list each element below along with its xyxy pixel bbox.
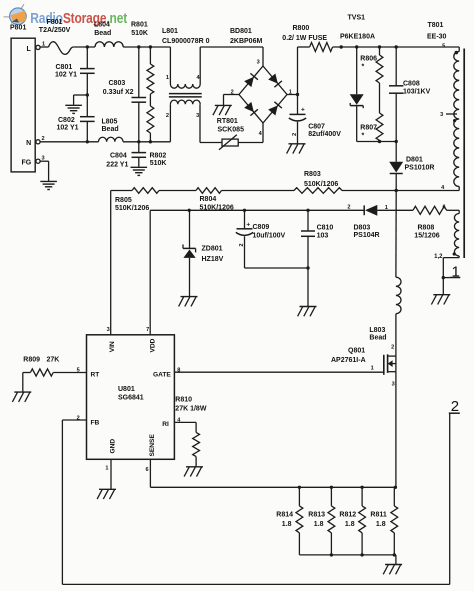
svg-text:Bead: Bead [102,126,119,133]
svg-text:C808: C808 [403,81,420,88]
svg-text:R809: R809 [23,357,40,364]
svg-text:R800: R800 [293,25,310,32]
svg-text:8: 8 [177,367,180,373]
svg-text:U801: U801 [118,386,135,393]
svg-text:2: 2 [391,344,394,350]
svg-text:+: + [301,106,305,113]
svg-text:6: 6 [145,467,148,473]
svg-text:1: 1 [105,465,108,471]
svg-text:15/1206: 15/1206 [414,232,439,239]
svg-text:R813: R813 [308,512,325,519]
svg-text:1: 1 [166,75,169,81]
svg-text:L801: L801 [162,28,178,35]
svg-text:BD801: BD801 [230,28,252,35]
svg-text:EE-30: EE-30 [427,33,447,40]
svg-text:RT: RT [91,371,100,378]
svg-text:7: 7 [146,327,149,333]
svg-text:CL9000078R 0: CL9000078R 0 [162,38,210,45]
svg-text:1: 1 [452,263,460,280]
svg-text:L: L [27,46,32,53]
svg-text:L803: L803 [369,327,385,334]
svg-text:82uf/400V: 82uf/400V [308,131,341,138]
svg-text:1,2: 1,2 [434,254,443,260]
svg-text:F801: F801 [47,19,63,26]
svg-text:C803: C803 [109,80,126,87]
svg-text:1.8: 1.8 [314,521,324,528]
svg-text:510K/1206: 510K/1206 [304,181,338,188]
svg-text:RI: RI [162,421,169,428]
svg-text:VIN: VIN [109,341,116,352]
svg-text:10uf/100V: 10uf/100V [253,233,286,240]
svg-text:R811: R811 [370,512,386,519]
svg-text:PS104R: PS104R [354,232,380,239]
svg-text:27K: 27K [47,357,60,364]
svg-text:SCK085: SCK085 [218,127,245,134]
svg-text:RT801: RT801 [217,118,238,125]
svg-text:2: 2 [451,398,459,415]
svg-text:D803: D803 [354,224,371,231]
svg-text:2: 2 [239,244,245,247]
svg-text:HZ18V: HZ18V [202,256,224,263]
svg-text:510K: 510K [131,30,148,37]
svg-text:1: 1 [385,205,388,211]
svg-text:222 Y1: 222 Y1 [106,161,128,168]
svg-text:SENSE: SENSE [149,434,156,457]
svg-text:R812: R812 [339,512,356,519]
svg-text:2: 2 [292,133,298,136]
svg-text:R804: R804 [200,196,217,203]
svg-text:TVS1: TVS1 [348,15,366,22]
svg-text:T801: T801 [428,22,444,29]
svg-text:102 Y1: 102 Y1 [57,125,79,132]
svg-text:1.8: 1.8 [376,521,386,528]
svg-text:27K 1/8W: 27K 1/8W [175,405,207,412]
svg-text:2KBP06M: 2KBP06M [230,38,262,45]
svg-text:2: 2 [347,204,350,210]
svg-text:2: 2 [231,89,234,95]
svg-text:FG: FG [21,160,31,167]
svg-text:103: 103 [317,233,329,240]
svg-text:3: 3 [392,381,395,387]
svg-text:*: * [362,133,365,140]
svg-text:510K: 510K [150,160,167,167]
svg-text:C802: C802 [58,117,75,124]
svg-text:*: * [362,64,365,71]
svg-text:103/1KV: 103/1KV [403,88,431,95]
svg-text:510K/1206: 510K/1206 [115,205,149,212]
svg-text:P801: P801 [10,25,26,32]
svg-text:1.8: 1.8 [345,521,355,528]
svg-text:T2A/250V: T2A/250V [39,27,71,34]
svg-text:GND: GND [109,439,116,454]
svg-text:5: 5 [77,367,80,373]
svg-text:C809: C809 [253,224,270,231]
svg-text:3: 3 [42,156,45,162]
svg-text:2: 2 [42,136,45,142]
svg-text:0.2/ 1W FUSE: 0.2/ 1W FUSE [282,35,327,42]
svg-text:3: 3 [107,327,110,333]
svg-text:D801: D801 [406,157,423,164]
svg-text:+: + [246,222,250,229]
svg-text:L804: L804 [94,21,110,28]
svg-text:R802: R802 [150,153,167,160]
svg-text:GATE: GATE [153,371,171,378]
svg-text:N: N [26,140,31,147]
svg-text:0.33uf X2: 0.33uf X2 [103,89,134,96]
svg-text:R806: R806 [360,56,377,63]
svg-text:3: 3 [196,113,199,119]
svg-text:FB: FB [91,420,100,427]
svg-text:1: 1 [42,42,45,48]
svg-text:R803: R803 [304,171,321,178]
svg-text:RadioStorage.net: RadioStorage.net [30,10,127,27]
svg-text:3: 3 [440,112,443,118]
svg-text:Q801: Q801 [348,348,365,355]
svg-text:2: 2 [77,415,80,421]
svg-text:AP2761I-A: AP2761I-A [331,357,366,364]
svg-text:PS1010R: PS1010R [405,164,435,171]
svg-text:R810: R810 [175,396,192,403]
svg-text:C807: C807 [308,124,325,131]
svg-text:1: 1 [289,89,292,95]
svg-text:2: 2 [166,113,169,119]
svg-text:5: 5 [442,43,445,49]
svg-text:102 Y1: 102 Y1 [55,71,77,78]
svg-text:ZD801: ZD801 [202,245,223,252]
svg-text:C810: C810 [317,225,334,232]
svg-text:VDD: VDD [150,338,157,352]
svg-text:C801: C801 [56,64,73,71]
svg-text:R807: R807 [360,125,377,132]
svg-text:Bead: Bead [94,30,111,37]
svg-text:R808: R808 [418,224,435,231]
svg-text:1: 1 [371,365,374,371]
svg-text:L805: L805 [102,118,118,125]
svg-text:SG6841: SG6841 [118,395,144,402]
svg-text:R801: R801 [131,21,148,28]
svg-text:P6KE180A: P6KE180A [340,33,375,40]
svg-text:1.8: 1.8 [282,521,292,528]
svg-text:C804: C804 [110,153,127,160]
svg-text:Bead: Bead [369,334,386,341]
svg-text:510K/1206: 510K/1206 [200,205,234,212]
svg-text:3: 3 [257,60,260,66]
svg-text:R814: R814 [276,512,293,519]
svg-text:R805: R805 [115,197,132,204]
svg-text:6: 6 [442,205,445,211]
